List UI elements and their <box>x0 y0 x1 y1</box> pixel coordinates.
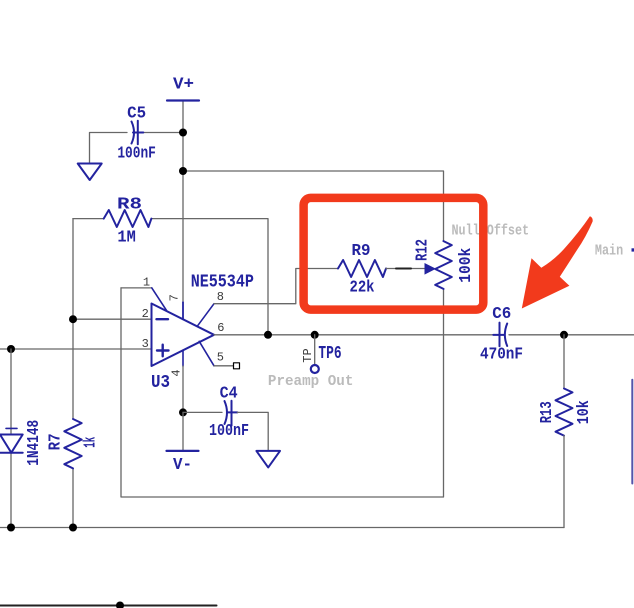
wire R13 bottom to rail <box>563 436 565 528</box>
junction dot pin2 <box>69 315 77 323</box>
blue sheet line right edge <box>631 380 633 484</box>
svg-text:C5: C5 <box>127 105 146 124</box>
svg-text:5: 5 <box>217 350 224 364</box>
svg-text:Preamp Out: Preamp Out <box>268 373 354 390</box>
pin 4 stub <box>182 350 184 366</box>
svg-text:R8: R8 <box>117 196 142 215</box>
bottom partial wire <box>0 605 217 607</box>
svg-text:100nF: 100nF <box>209 422 249 441</box>
svg-text:V+: V+ <box>173 76 194 95</box>
diode D 1N4148 <box>0 428 23 452</box>
resistor R13 <box>556 389 573 436</box>
svg-text:6: 6 <box>217 321 224 335</box>
svg-text:22k: 22k <box>350 279 375 298</box>
svg-text:8: 8 <box>217 290 224 304</box>
blue mark right edge <box>632 248 634 251</box>
pin 8 stub and wire <box>197 304 214 327</box>
svg-text:Null Offset: Null Offset <box>452 223 530 240</box>
wire pin4 to C4 and V- <box>179 408 187 416</box>
pin 1 wire and stub <box>121 287 152 289</box>
pin 5 stub and no-connect <box>199 341 214 366</box>
wire C4 left <box>183 411 222 413</box>
power symbol V+ <box>167 99 199 101</box>
wire pin2 <box>73 318 152 320</box>
pin 6 output wire <box>214 334 494 336</box>
junction dot pin3/diode <box>7 345 15 353</box>
ground GND1 <box>78 164 102 181</box>
wire R8 right to output <box>151 219 268 335</box>
capacitor C4 <box>225 401 238 426</box>
svg-text:C4: C4 <box>220 385 238 404</box>
resistor R8 <box>104 210 152 227</box>
wire V+ vertical <box>182 101 184 303</box>
wire C5 right <box>144 132 183 134</box>
svg-text:1N4148: 1N4148 <box>25 420 44 466</box>
wire V+ junction to R12 top <box>183 171 444 241</box>
svg-text:R7: R7 <box>47 433 66 450</box>
svg-text:R12: R12 <box>413 239 432 261</box>
svg-text:1M: 1M <box>117 229 135 248</box>
capacitor C5 <box>132 121 144 144</box>
svg-text:2: 2 <box>142 307 149 321</box>
wire diode vertical <box>10 349 12 435</box>
wiper wire R9 to R12 <box>386 268 426 270</box>
junction dot V+/C5 <box>179 129 187 137</box>
capacitor C6 <box>493 323 507 347</box>
svg-text:100k: 100k <box>457 248 476 283</box>
red highlight rectangle <box>304 198 484 310</box>
wire left vertical x73 <box>72 219 74 419</box>
potentiometer R12 <box>435 241 452 289</box>
wire pin3 <box>0 348 152 350</box>
pin 7 stub <box>182 302 184 319</box>
svg-text:1: 1 <box>143 276 150 290</box>
junction dot output/R13 <box>560 331 568 339</box>
svg-text:10k: 10k <box>575 400 594 424</box>
red annotation arrow <box>522 216 593 308</box>
svg-text:7: 7 <box>167 294 181 301</box>
svg-text:4: 4 <box>169 369 183 376</box>
svg-text:470nF: 470nF <box>480 346 523 365</box>
ground GND2 <box>256 451 280 468</box>
box wire pin1 to R12 bottom <box>121 288 444 497</box>
wire C4 right to ground <box>237 412 268 450</box>
svg-text:V-: V- <box>173 456 192 475</box>
TP6 test point <box>311 331 319 339</box>
bottom rail wire <box>0 527 564 529</box>
resistor R7 <box>64 419 81 468</box>
svg-text:100nF: 100nF <box>117 145 156 164</box>
minus input mark <box>157 318 169 320</box>
svg-text:3: 3 <box>142 337 149 351</box>
plus input mark <box>157 345 169 357</box>
svg-text:U3: U3 <box>151 372 170 393</box>
power symbol V- <box>167 450 199 452</box>
wire R8 left <box>73 218 104 220</box>
wire R13 top <box>563 335 565 389</box>
op-amp U3 <box>152 304 215 367</box>
svg-text:1k: 1k <box>81 437 100 448</box>
svg-text:R13: R13 <box>538 401 557 423</box>
wire C5 left to ground <box>90 133 128 164</box>
svg-text:C6: C6 <box>492 305 511 324</box>
svg-text:TP6: TP6 <box>318 344 341 364</box>
svg-text:Main: Main <box>595 242 623 259</box>
svg-text:R9: R9 <box>352 242 371 261</box>
resistor R9 <box>338 260 386 277</box>
wiper arrow <box>425 263 437 275</box>
junction dot V+/R12 <box>179 167 187 175</box>
svg-text:TP: TP <box>301 348 315 362</box>
